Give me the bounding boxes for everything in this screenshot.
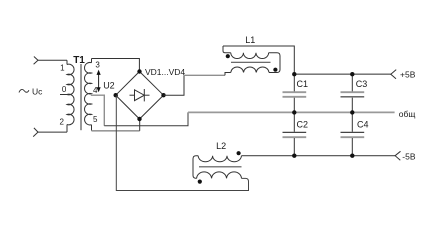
- transformer T1 primary winding: [67, 64, 74, 125]
- L2 phase dot bottom: [198, 180, 202, 184]
- node bridge right: [161, 93, 165, 97]
- svg-text:C1: C1: [297, 79, 309, 89]
- -5V rail: [241, 155, 395, 157]
- L1 phase dot bottom: [273, 68, 277, 72]
- svg-text:+5В: +5В: [400, 69, 416, 79]
- node -5 rail C4: [350, 154, 354, 158]
- common rail (gray): [188, 111, 395, 113]
- node +5 rail C1: [292, 72, 296, 76]
- inductor L2 bottom winding: [197, 172, 242, 178]
- wire L1 bottom-left jog: [225, 73, 231, 76]
- svg-text:L2: L2: [216, 141, 226, 151]
- wire secondary top stub: [91, 59, 93, 63]
- svg-text:2: 2: [60, 117, 65, 126]
- L2 left bracket: [193, 156, 198, 179]
- inductor L1 bottom winding: [231, 67, 269, 73]
- L1 core: [231, 61, 271, 63]
- capacitor C2 lead bottom: [293, 138, 295, 156]
- diode bridge VD1...VD4 diamond: [116, 72, 164, 120]
- wire bridge right to L1: [164, 75, 185, 95]
- svg-text:VD1...VD4: VD1...VD4: [145, 67, 185, 77]
- transformer core: [80, 64, 82, 130]
- capacitor C3 lead bottom: [351, 98, 353, 113]
- capacitor C3 plates: [341, 91, 365, 93]
- svg-text:1: 1: [60, 64, 65, 73]
- input terminal bottom (chevron): [33, 128, 38, 137]
- L1 phase dot top: [226, 54, 230, 58]
- wire L1 top loop to +5 rail: [223, 46, 294, 74]
- wire tap5 (gray): [92, 130, 140, 132]
- wire L1 top-left up: [223, 46, 231, 53]
- capacitor C4 plates: [341, 131, 365, 133]
- node common rail C1/C2: [292, 110, 296, 114]
- svg-text:3: 3: [95, 60, 100, 69]
- +5V rail: [294, 73, 391, 75]
- svg-text:4: 4: [93, 86, 98, 95]
- wire L2 return to bridge left node: [116, 95, 248, 190]
- L1 right bracket: [269, 53, 280, 73]
- U2 arrow: [98, 73, 100, 89]
- output terminal -5V (chevron): [395, 151, 400, 160]
- wire tap 0 stub: [60, 94, 68, 96]
- wire tap3 to bridge top: [92, 59, 140, 72]
- transformer T1 secondary winding: [85, 62, 92, 124]
- node +5 rail C3: [350, 72, 354, 76]
- capacitor C1 lead bottom: [293, 98, 295, 113]
- L2 core: [199, 166, 242, 168]
- output terminal +5V (chevron): [391, 70, 396, 79]
- wire primary top stub: [66, 60, 68, 64]
- wire secondary bottom stub: [91, 125, 93, 131]
- wire input bottom: [38, 131, 67, 133]
- wire tap4 (gray) to down corner: [91, 95, 105, 126]
- capacitor C2 lead top: [293, 112, 295, 131]
- inductor L2 top winding: [198, 156, 241, 162]
- capacitor C1 lead top: [293, 74, 295, 91]
- wire bridge bottom stub: [139, 119, 141, 131]
- wire primary bottom stub: [66, 125, 68, 133]
- node bridge left: [114, 93, 118, 97]
- capacitor C3 lead top: [351, 74, 353, 91]
- svg-text:U2: U2: [103, 81, 115, 91]
- svg-text:5: 5: [93, 115, 98, 124]
- input terminal top (chevron): [34, 57, 38, 65]
- node common rail C3/C4: [350, 110, 354, 114]
- node -5 rail C2: [292, 154, 296, 158]
- svg-text:T1: T1: [73, 55, 85, 66]
- inductor L1 top winding: [231, 53, 269, 59]
- svg-text:C2: C2: [297, 120, 309, 130]
- svg-text:-5В: -5В: [402, 152, 416, 162]
- diode symbol inside bridge: [130, 94, 135, 96]
- svg-text:0: 0: [62, 85, 67, 94]
- wire input top: [38, 59, 67, 61]
- capacitor C2 plates: [283, 131, 307, 133]
- capacitor C1 plates: [283, 91, 307, 93]
- svg-text:общ: общ: [399, 109, 416, 119]
- node bridge top: [137, 69, 141, 73]
- capacitor C4 lead top: [351, 112, 353, 131]
- node bridge bottom: [137, 117, 141, 121]
- wire common path under bridge: [104, 112, 188, 125]
- L2 phase dot top: [237, 151, 241, 155]
- svg-text:L1: L1: [245, 35, 255, 45]
- wire to L1 bottom (gray): [184, 74, 225, 76]
- svg-text:C3: C3: [356, 79, 368, 89]
- svg-text:Uc: Uc: [32, 86, 43, 96]
- AC source label ~Uc: [19, 89, 29, 92]
- capacitor C4 lead bottom: [351, 138, 353, 156]
- svg-text:C4: C4: [357, 120, 369, 130]
